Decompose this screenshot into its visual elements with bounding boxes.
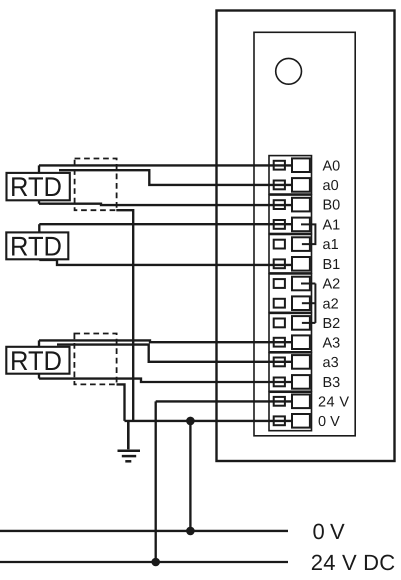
terminal A0 screw + clamp [274, 158, 310, 172]
svg-text:a3: a3 [323, 355, 339, 371]
svg-text:RTD: RTD [10, 172, 62, 202]
ground drop wire [127, 421, 130, 449]
0V power rail [0, 530, 288, 532]
terminal 0V screw + clamp [274, 414, 310, 428]
terminal block group 5 (B2,A3) [269, 313, 312, 351]
svg-text:RTD: RTD [10, 346, 62, 376]
terminal block group 2 (B0,A1) [269, 195, 312, 233]
RTD3 shield wire to 0V [117, 384, 125, 421]
svg-text:B1: B1 [323, 257, 341, 273]
terminal a3 screw + clamp [274, 355, 310, 369]
sensor RTD2 box [6, 231, 68, 261]
jumper stub a2 [302, 302, 316, 304]
terminal A1 screw + clamp [274, 218, 310, 232]
junction dot 24VDC rail [151, 558, 160, 567]
svg-text:24 V DC: 24 V DC [311, 550, 396, 575]
indicator circle [276, 58, 302, 84]
terminal a0 screw + clamp [274, 178, 310, 192]
terminal 24V screw + clamp [274, 395, 310, 409]
wire 24V drop to 24VDC rail [155, 401, 157, 562]
ground symbol [118, 451, 141, 462]
RTD1 compensation dashed box [75, 159, 117, 211]
svg-text:0 V: 0 V [313, 519, 346, 544]
module inner panel [254, 32, 355, 436]
RTD2 sensor body left edge [38, 224, 40, 260]
wire 24V supply to terminal [156, 400, 292, 402]
sensor RTD3 box [6, 346, 69, 376]
terminal B0 screw + clamp [274, 198, 310, 212]
wire a3 (sense lead with step) [57, 345, 292, 362]
terminal block group 1 (A0,a0) [269, 156, 312, 194]
svg-text:0 V: 0 V [318, 414, 340, 430]
jumper A1-a1 [301, 224, 315, 244]
svg-text:a0: a0 [323, 178, 339, 194]
wire A3 [39, 340, 292, 342]
wire 0V drop to 0V rail [189, 421, 191, 531]
svg-text:B3: B3 [323, 375, 341, 391]
wire B0 [39, 204, 292, 205]
RTD1 shield wire to 0V [116, 210, 133, 421]
module U1 outer enclosure [217, 11, 395, 462]
terminal B2 screw + clamp [274, 316, 310, 330]
RTD1 sensor body left edge [38, 165, 40, 203]
jumper A2-a2-B2 vertical [314, 284, 316, 323]
terminal block group 6 (a3,B3) [269, 353, 312, 391]
svg-text:RTD: RTD [10, 231, 62, 261]
jumper stub A2 [301, 283, 315, 285]
terminal a2 screw + clamp [274, 296, 310, 310]
wire A0 [39, 164, 292, 166]
terminal A3 screw + clamp [274, 335, 310, 349]
24VDC power rail [0, 561, 288, 563]
terminal a1 screw + clamp [274, 237, 310, 251]
wire a0 (sense lead with step) [59, 170, 292, 185]
svg-text:B2: B2 [323, 316, 341, 332]
svg-text:B0: B0 [323, 198, 341, 214]
terminal block group 3 (a1,B1) [269, 234, 312, 272]
RTD3 sensor body left edge [38, 340, 40, 378]
terminal B3 screw + clamp [274, 375, 310, 389]
svg-text:A3: A3 [323, 335, 341, 351]
sensor RTD1 box [7, 172, 70, 202]
RTD3 compensation dashed box [74, 334, 116, 385]
wire 0V to terminal [125, 420, 293, 422]
wire B3 [39, 379, 292, 382]
jumper stub B2 [302, 322, 316, 324]
svg-text:a1: a1 [323, 237, 339, 253]
svg-text:a2: a2 [323, 296, 339, 312]
junction dot 0V wire [186, 417, 195, 426]
terminal A2 screw + clamp [274, 277, 310, 291]
svg-text:A0: A0 [323, 158, 341, 174]
terminal B1 screw + clamp [274, 257, 310, 271]
wire A1 [39, 223, 292, 225]
wire B1 [39, 260, 292, 265]
terminal block group 4 (A2,a2) [269, 274, 312, 312]
svg-text:A2: A2 [323, 277, 341, 293]
svg-text:A1: A1 [323, 218, 341, 234]
terminal block group 7 (24V,0V) [269, 392, 312, 430]
junction dot 0V rail [186, 527, 195, 536]
svg-text:24 V: 24 V [318, 395, 349, 411]
